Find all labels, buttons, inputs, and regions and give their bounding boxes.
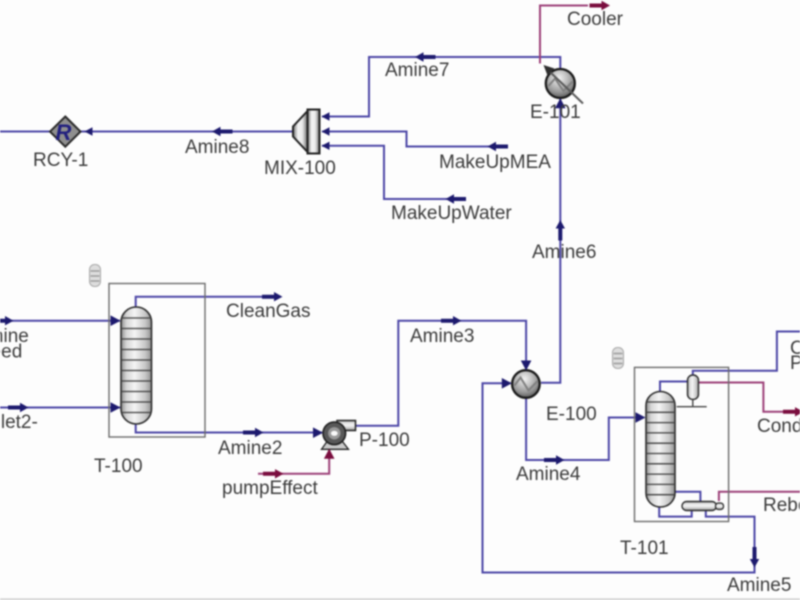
svg-text:Inlet2-: Inlet2- bbox=[0, 412, 38, 433]
svg-text:Feed: Feed bbox=[0, 342, 22, 363]
svg-text:CleanGas: CleanGas bbox=[226, 301, 311, 322]
svg-text:Amine5: Amine5 bbox=[727, 575, 791, 596]
svg-text:MakeUpWater: MakeUpWater bbox=[391, 203, 512, 224]
svg-text:Amine6: Amine6 bbox=[532, 242, 596, 263]
svg-text:E-101: E-101 bbox=[530, 102, 581, 123]
svg-text:pumpEffect: pumpEffect bbox=[222, 478, 318, 499]
svg-text:T-100: T-100 bbox=[94, 456, 143, 477]
svg-text:P-100: P-100 bbox=[359, 430, 410, 451]
svg-text:RCY-1: RCY-1 bbox=[33, 150, 88, 171]
svg-text:Conde: Conde bbox=[757, 416, 800, 437]
svg-text:Amine8: Amine8 bbox=[185, 137, 249, 158]
svg-text:T-101: T-101 bbox=[620, 538, 669, 559]
svg-text:Amine4: Amine4 bbox=[516, 464, 581, 485]
svg-text:Rebo: Rebo bbox=[763, 495, 800, 516]
svg-text:MakeUpMEA: MakeUpMEA bbox=[439, 152, 551, 173]
svg-text:Amine7: Amine7 bbox=[385, 60, 449, 81]
svg-text:Pr: Pr bbox=[790, 353, 800, 374]
svg-text:Cooler: Cooler bbox=[567, 9, 624, 30]
svg-text:R: R bbox=[56, 120, 72, 145]
svg-text:Amine3: Amine3 bbox=[410, 326, 474, 347]
svg-text:E-100: E-100 bbox=[546, 404, 597, 425]
svg-text:MIX-100: MIX-100 bbox=[264, 158, 336, 179]
svg-text:Amine2: Amine2 bbox=[218, 438, 282, 459]
